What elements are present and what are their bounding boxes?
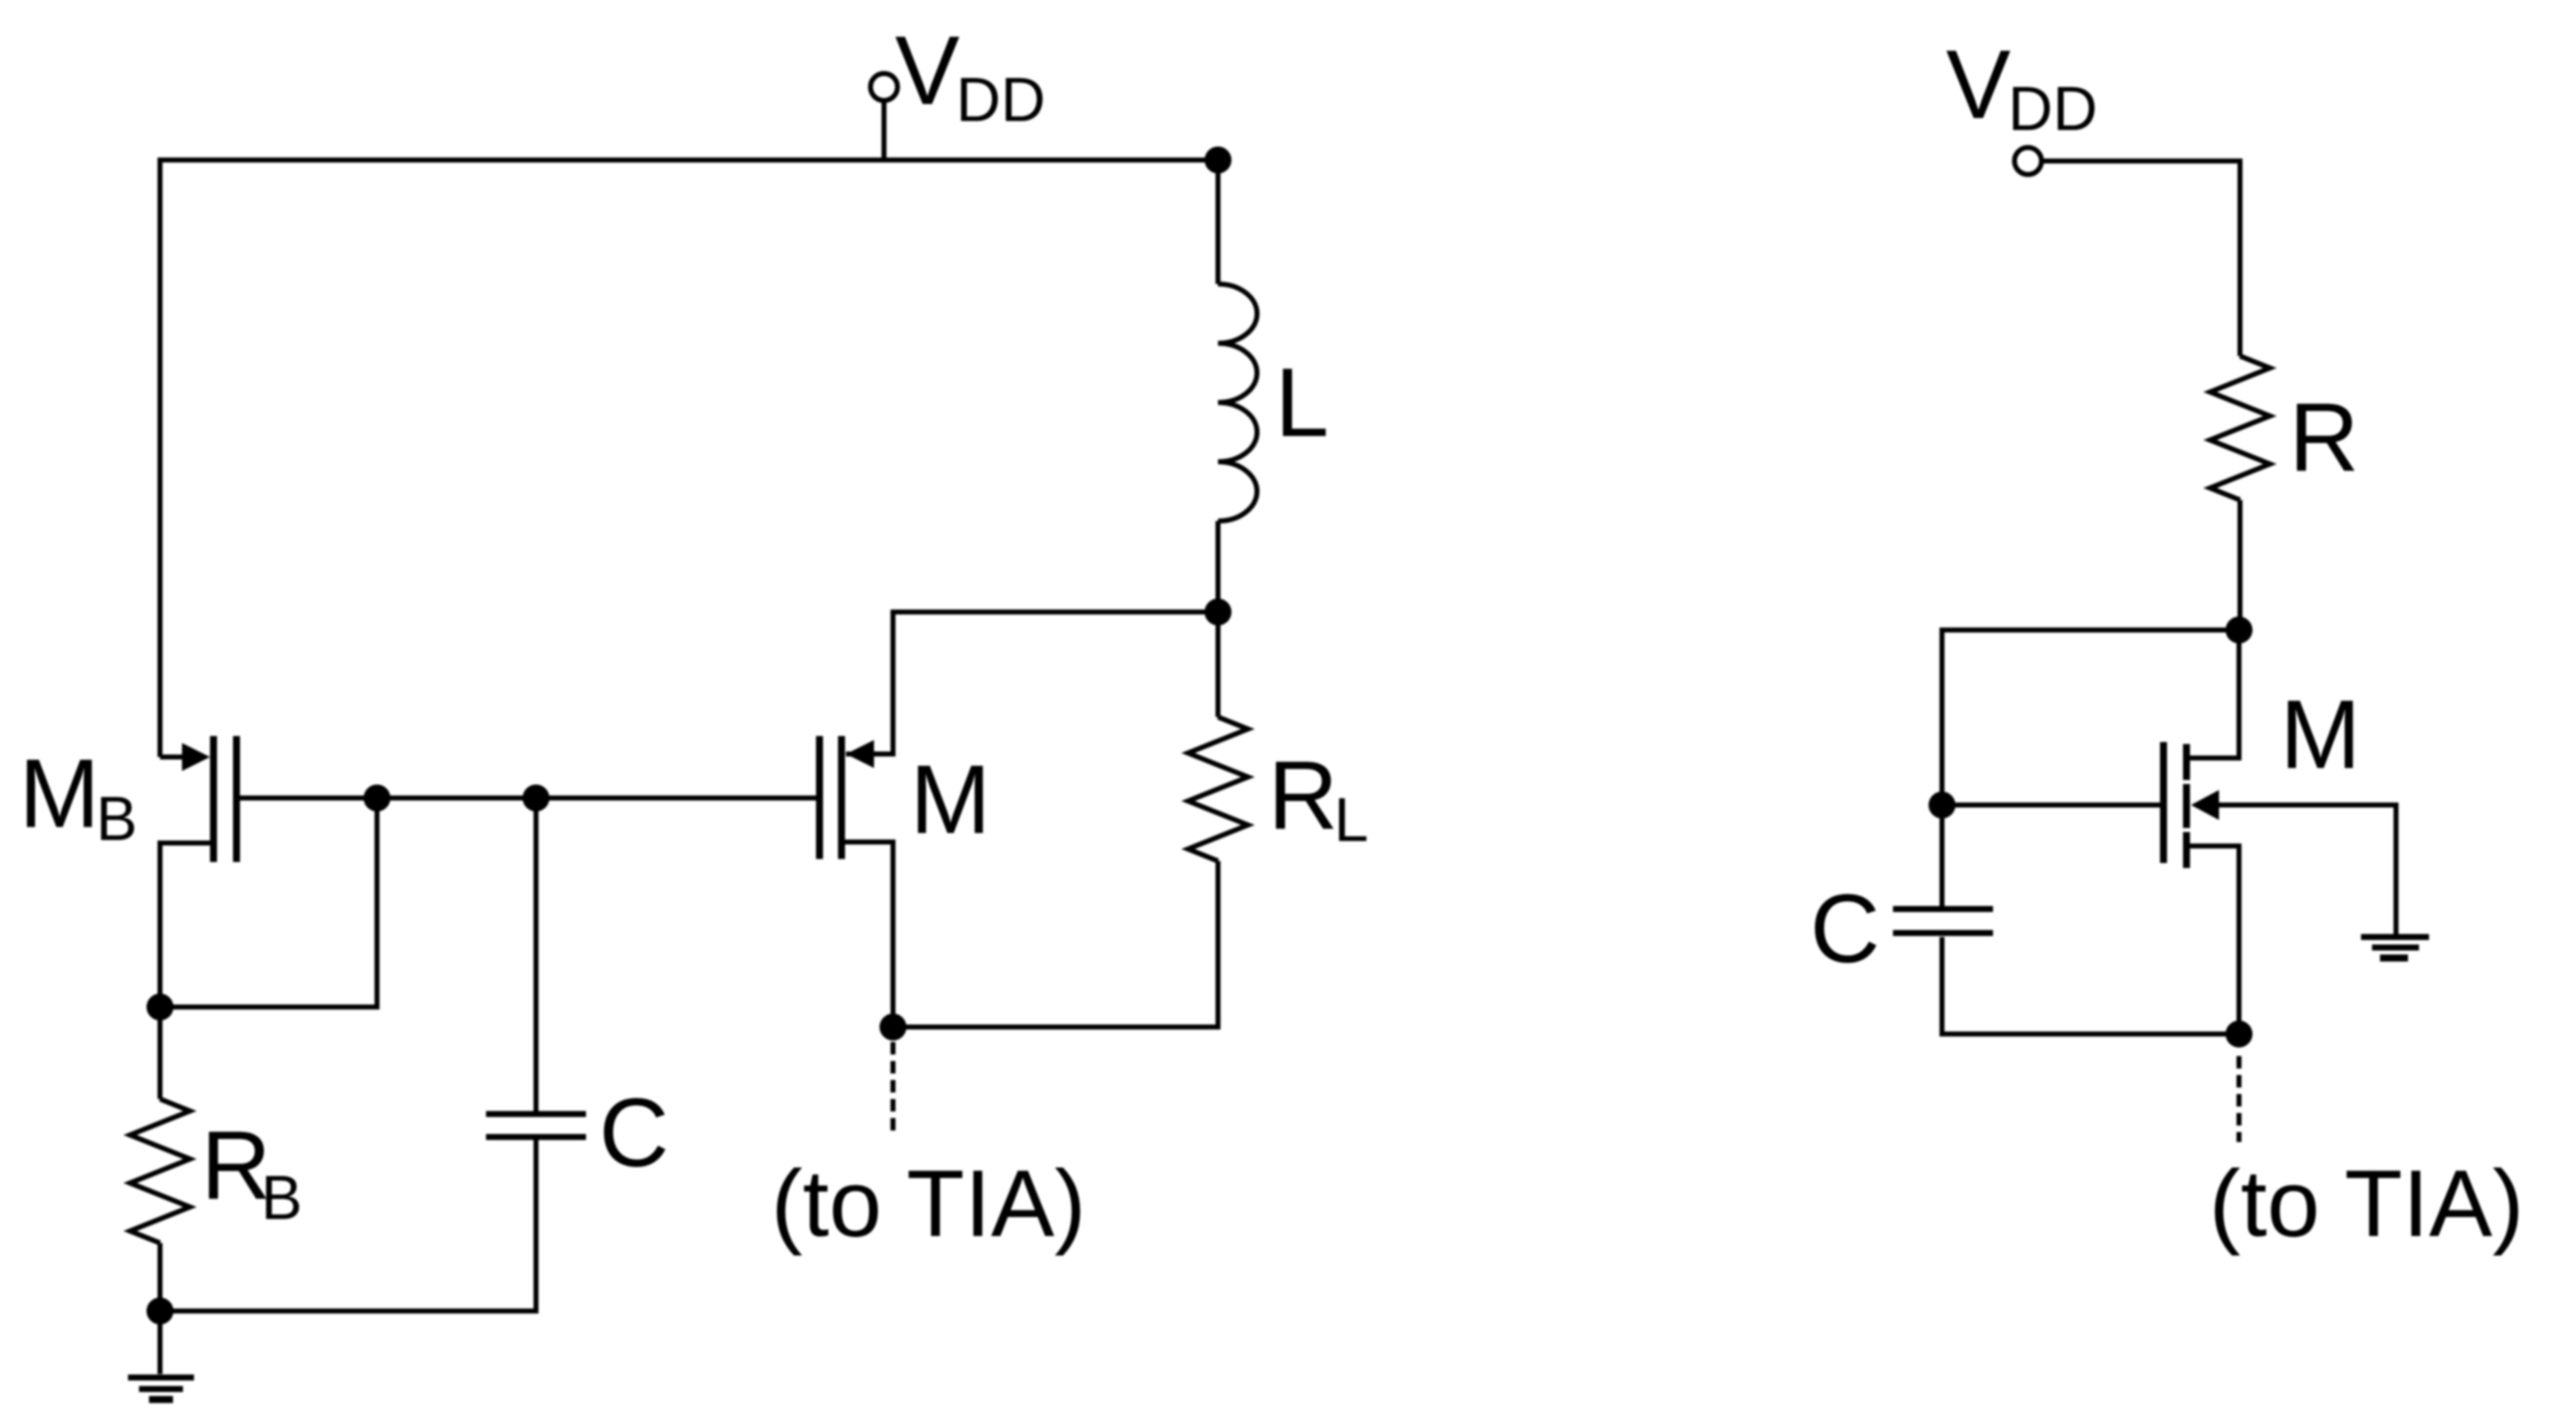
- svg-text:B: B: [261, 1164, 302, 1233]
- svg-text:DD: DD: [956, 66, 1046, 135]
- svg-text:L: L: [1334, 786, 1368, 855]
- svg-text:R: R: [1268, 741, 1338, 850]
- svg-text:M: M: [910, 745, 991, 854]
- svg-text:M: M: [2280, 680, 2361, 789]
- svg-text:L: L: [1275, 348, 1329, 457]
- svg-text:(to TIA): (to TIA): [2209, 1151, 2524, 1257]
- svg-text:R: R: [2289, 383, 2359, 492]
- svg-text:V: V: [895, 16, 960, 125]
- svg-text:B: B: [96, 785, 137, 854]
- svg-text:C: C: [1810, 874, 1880, 983]
- svg-text:C: C: [599, 1078, 669, 1187]
- svg-text:M: M: [19, 739, 100, 848]
- svg-text:V: V: [1946, 30, 2011, 139]
- svg-text:(to TIA): (to TIA): [771, 1151, 1086, 1257]
- svg-text:DD: DD: [2008, 75, 2098, 144]
